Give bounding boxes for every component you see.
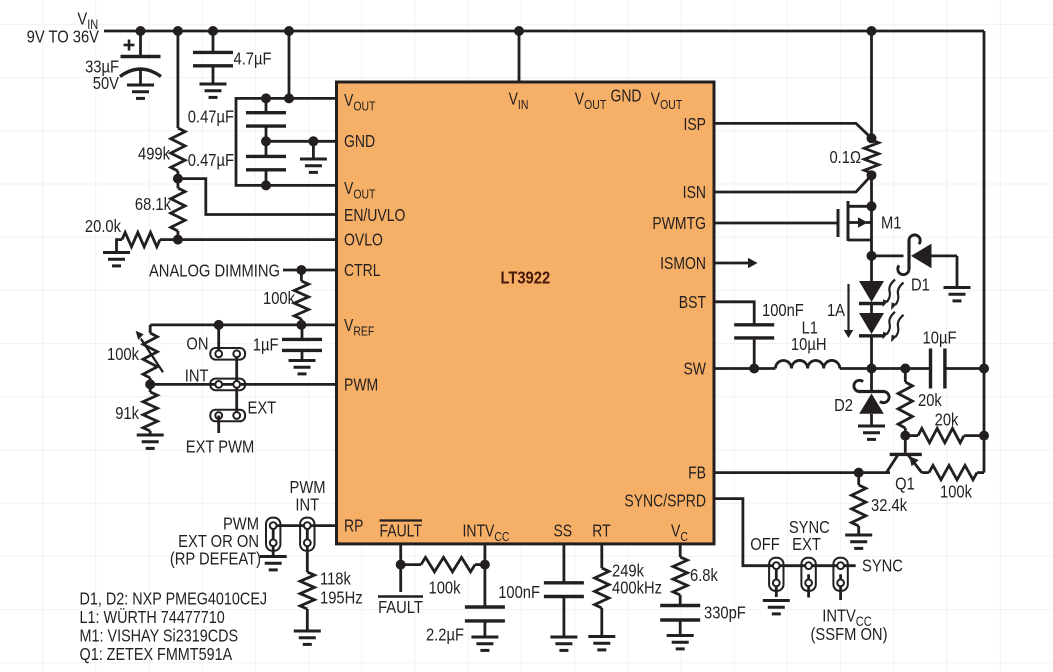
jumper ON <box>210 348 245 360</box>
capacitor 100nF BST <box>734 325 774 369</box>
svg-text:EXT: EXT <box>792 535 821 555</box>
svg-text:Q1: ZETEX FMMT591A: Q1: ZETEX FMMT591A <box>80 645 233 665</box>
wire INTVCC pin <box>483 544 486 607</box>
ground VC <box>667 636 694 649</box>
svg-text:6.8k: 6.8k <box>690 566 719 586</box>
svg-text:50V: 50V <box>93 73 119 93</box>
wire pot to INT row <box>149 378 152 384</box>
svg-text:330pF: 330pF <box>704 603 746 623</box>
LED D3 <box>859 281 884 304</box>
wire LED2 to SW node <box>870 336 873 369</box>
svg-text:M1: VISHAY Si2319CDS: M1: VISHAY Si2319CDS <box>80 626 239 646</box>
svg-text:100k: 100k <box>263 289 296 309</box>
capacitor 330pF <box>660 606 700 636</box>
ground R 20.0k <box>103 253 130 266</box>
wire R1-R2 <box>176 171 179 188</box>
inductor L1 10uH <box>775 360 839 368</box>
junction 20k rail <box>979 431 989 441</box>
svg-text:SYNC: SYNC <box>862 556 903 576</box>
capacitor 33uF 50V electrolytic <box>120 31 161 85</box>
svg-text:100k: 100k <box>429 578 462 598</box>
wire ISMON arrow <box>714 258 758 269</box>
ground D2 <box>858 426 885 439</box>
junction VIN-pin <box>514 26 524 36</box>
wire VIN to sense <box>870 31 873 138</box>
junction sense top <box>867 133 877 143</box>
svg-text:0.1Ω: 0.1Ω <box>829 148 861 168</box>
junction cp2 <box>284 93 294 103</box>
svg-text:4.7µF: 4.7µF <box>234 49 272 69</box>
junction OVLO node <box>173 235 183 245</box>
ground 1uF <box>289 361 316 374</box>
wire VC pin <box>679 544 682 557</box>
wire sense to M1 <box>870 175 873 206</box>
junction M1 source <box>867 201 877 211</box>
svg-text:GND: GND <box>610 87 641 106</box>
capacitor 4.7uF <box>193 31 233 84</box>
jumper SYNC EXT <box>801 558 815 598</box>
junction VIN-C1 <box>136 26 146 36</box>
label 1A arrow <box>844 284 854 338</box>
svg-text:INT: INT <box>185 366 209 386</box>
svg-text:CTRL: CTRL <box>344 262 381 281</box>
junction FB <box>854 468 864 478</box>
ground 118k <box>294 631 321 644</box>
wire right rail <box>983 31 986 473</box>
wire VIN rail <box>104 30 984 33</box>
junction VREF-cap <box>296 320 306 330</box>
svg-text:L1: WÜRTH 74477710: L1: WÜRTH 74477710 <box>80 608 225 628</box>
wire SS pin <box>563 544 566 583</box>
junction INTVCC <box>480 560 490 570</box>
wire SW to D2 <box>870 369 873 391</box>
svg-text:1µF: 1µF <box>253 335 279 355</box>
junction SW-LED <box>867 364 877 374</box>
svg-text:RP: RP <box>344 517 363 536</box>
junction FAULT <box>396 560 406 570</box>
svg-text:D1, D2: NXP PMEG4010CEJ: D1, D2: NXP PMEG4010CEJ <box>80 589 268 609</box>
wire FB <box>714 471 890 474</box>
jumper RP INT <box>300 518 314 572</box>
svg-text:Q1: Q1 <box>895 474 915 494</box>
capacitor 2.2uF <box>465 607 505 637</box>
svg-text:FAULT: FAULT <box>379 522 422 541</box>
diode D2 schottky <box>854 380 889 426</box>
jumper SYNC INTVCC <box>833 558 847 600</box>
ground SS <box>550 637 577 650</box>
svg-text:SYNC/SPRD: SYNC/SPRD <box>624 492 706 511</box>
svg-text:100nF: 100nF <box>762 301 804 321</box>
wire RP <box>273 524 336 527</box>
resistor R 6.8k <box>673 557 687 606</box>
wire OVLO to pin <box>178 238 337 241</box>
resistor R 68.1k <box>171 188 185 231</box>
svg-text:91k: 91k <box>115 404 139 424</box>
resistor R 32.4k <box>852 473 866 535</box>
svg-text:M1: M1 <box>881 213 901 233</box>
junction cp3 <box>261 136 271 146</box>
ground RT <box>588 637 615 650</box>
jumper RP left <box>266 518 280 557</box>
svg-text:0.47µF: 0.47µF <box>188 107 234 127</box>
label + polarity <box>124 40 135 51</box>
junction VIN-C4.7 <box>208 26 218 36</box>
wire VIN pin <box>518 31 521 82</box>
junction SW-20k <box>900 364 910 374</box>
pin RP FAULT bottom <box>379 521 422 541</box>
wire VIN to R1 <box>176 31 179 128</box>
svg-text:LT3922: LT3922 <box>500 268 550 288</box>
junction 20k base <box>900 431 910 441</box>
wire CTRL <box>283 269 337 272</box>
ground SYNC OFF <box>763 601 790 614</box>
svg-text:499k: 499k <box>138 144 171 164</box>
junction sense bottom <box>867 170 877 180</box>
capacitor 1uF <box>282 325 322 361</box>
svg-text:10µF: 10µF <box>923 328 957 348</box>
svg-text:10µH: 10µH <box>791 335 827 355</box>
wire PWMTG <box>714 222 838 225</box>
wire VREF <box>150 323 336 326</box>
svg-text:100k: 100k <box>940 482 973 502</box>
ground D1 <box>944 288 971 301</box>
svg-text:OFF: OFF <box>750 535 779 555</box>
wire to LED1 <box>870 256 873 281</box>
resistor R 20.0k <box>117 232 178 252</box>
junction cp5 <box>261 180 271 190</box>
resistor R 100k FB <box>922 465 984 479</box>
wire EN/UVLO <box>178 179 337 215</box>
svg-text:EXT: EXT <box>248 398 277 418</box>
wire jumper chain <box>235 354 238 416</box>
LED D3 emission arrows <box>883 280 904 311</box>
svg-text:(SSFM ON): (SSFM ON) <box>811 625 888 645</box>
transistor M1 PMOS <box>838 201 872 256</box>
junction SW-rail <box>979 364 989 374</box>
wire GND pin row <box>266 140 337 143</box>
svg-text:D1: D1 <box>911 275 930 295</box>
resistor R 118k <box>300 572 314 631</box>
wire VOUT top loop <box>236 98 337 185</box>
capacitor 100nF SS <box>544 583 584 637</box>
ground 91k <box>137 435 164 448</box>
junction pot-INT <box>145 379 155 389</box>
junction VIN-R499k <box>173 26 183 36</box>
svg-text:EN/UVLO: EN/UVLO <box>344 207 405 226</box>
svg-text:118k: 118k <box>320 569 352 589</box>
wire PWM row <box>150 383 336 386</box>
svg-text:PWMTG: PWMTG <box>652 215 706 234</box>
ground RP jumper <box>260 557 287 570</box>
wire SYNC/SPRD <box>714 499 856 566</box>
wire SW <box>714 367 775 370</box>
capacitor 0.47uF lower <box>246 141 286 185</box>
ground C2 <box>200 84 227 97</box>
svg-text:32.4k: 32.4k <box>871 496 908 516</box>
svg-text:400kHz: 400kHz <box>612 578 662 598</box>
junction VREF-jumper <box>214 320 224 330</box>
svg-text:100nF: 100nF <box>498 583 540 603</box>
svg-text:ISN: ISN <box>683 184 706 203</box>
jumper EXT <box>210 410 245 422</box>
IC U1 LT3922 body <box>337 82 715 544</box>
svg-text:ISMON: ISMON <box>660 255 706 274</box>
svg-text:ON: ON <box>186 334 208 354</box>
ground 2.2uF <box>471 637 498 650</box>
junction cp4 <box>308 136 318 146</box>
ground GND pin <box>300 141 327 172</box>
wire BST <box>714 302 754 325</box>
svg-text:195Hz: 195Hz <box>320 588 363 608</box>
svg-text:100k: 100k <box>107 345 140 365</box>
svg-text:SW: SW <box>683 360 706 379</box>
wire LED node to D1 <box>872 254 904 257</box>
svg-text:ISP: ISP <box>683 116 706 135</box>
junction CTRL <box>296 265 306 275</box>
wire VREF to ON jumper <box>217 325 220 354</box>
svg-text:PWM: PWM <box>344 376 378 395</box>
capacitor 0.47uF upper <box>246 98 286 141</box>
svg-text:68.1k: 68.1k <box>135 195 172 215</box>
junction cp1 <box>261 93 271 103</box>
LED D4 <box>859 313 884 336</box>
jumper INT <box>210 379 245 391</box>
wire ISP <box>714 123 872 138</box>
svg-text:20k: 20k <box>935 410 959 430</box>
wire LED1-LED2 <box>870 304 873 314</box>
ground 32.4k <box>845 535 872 548</box>
svg-text:20.0k: 20.0k <box>85 217 122 237</box>
svg-text:GND: GND <box>344 133 375 152</box>
svg-text:ANALOG DIMMING: ANALOG DIMMING <box>149 261 280 281</box>
wire RT pin <box>600 544 603 568</box>
junction VIN-chargepump <box>284 26 294 36</box>
resistor R 0.1ohm sense <box>864 140 878 173</box>
wire VIN drop to VOUT loop <box>288 31 291 98</box>
wire R2-OVLO <box>176 231 179 240</box>
wire VREF to pot <box>149 325 152 333</box>
svg-text:(RP DEFEAT): (RP DEFEAT) <box>170 549 261 569</box>
svg-text:SS: SS <box>553 522 572 541</box>
svg-text:INT: INT <box>295 495 319 515</box>
resistor R 20k vertical <box>898 369 912 436</box>
svg-text:20k: 20k <box>918 391 942 411</box>
potentiometer 100k <box>136 331 163 378</box>
capacitor 10uF <box>931 349 985 389</box>
label FAULT external <box>378 597 423 618</box>
svg-text:2.2µF: 2.2µF <box>426 625 464 645</box>
svg-text:0.47µF: 0.47µF <box>188 151 234 171</box>
resistor R 499k <box>171 128 185 171</box>
wire EXT PWM stub <box>217 416 220 434</box>
resistor R 20k horizontal <box>905 428 984 442</box>
svg-text:RT: RT <box>592 522 611 541</box>
resistor R 100k CTRL <box>294 270 308 325</box>
resistor R 249k <box>595 568 609 637</box>
resistor R 100k FAULT <box>401 557 485 571</box>
junction LED top <box>867 251 877 261</box>
diode D1 schottky <box>898 235 957 288</box>
svg-text:D2: D2 <box>834 396 853 416</box>
svg-text:FAULT: FAULT <box>378 598 423 618</box>
resistor R 91k <box>143 384 157 435</box>
svg-text:EXT PWM: EXT PWM <box>186 437 255 457</box>
svg-text:BST: BST <box>679 294 706 313</box>
wire ISN <box>714 175 872 192</box>
junction VIN-sense <box>867 26 877 36</box>
svg-text:FB: FB <box>688 464 706 483</box>
junction EN node <box>173 174 183 184</box>
jumper SYNC OFF <box>769 558 783 597</box>
svg-text:9V TO 36V: 9V TO 36V <box>27 27 99 47</box>
LED D4 emission arrows <box>883 312 904 343</box>
svg-text:1A: 1A <box>827 301 845 321</box>
junction BST-SW <box>749 364 759 374</box>
wire FAULT label stub <box>399 565 402 592</box>
wire FAULT pin <box>399 544 402 565</box>
svg-text:OVLO: OVLO <box>344 231 383 250</box>
ground C1 <box>127 85 154 98</box>
wire SW to LED node <box>840 367 931 370</box>
transistor Q1 PNP <box>886 436 921 473</box>
